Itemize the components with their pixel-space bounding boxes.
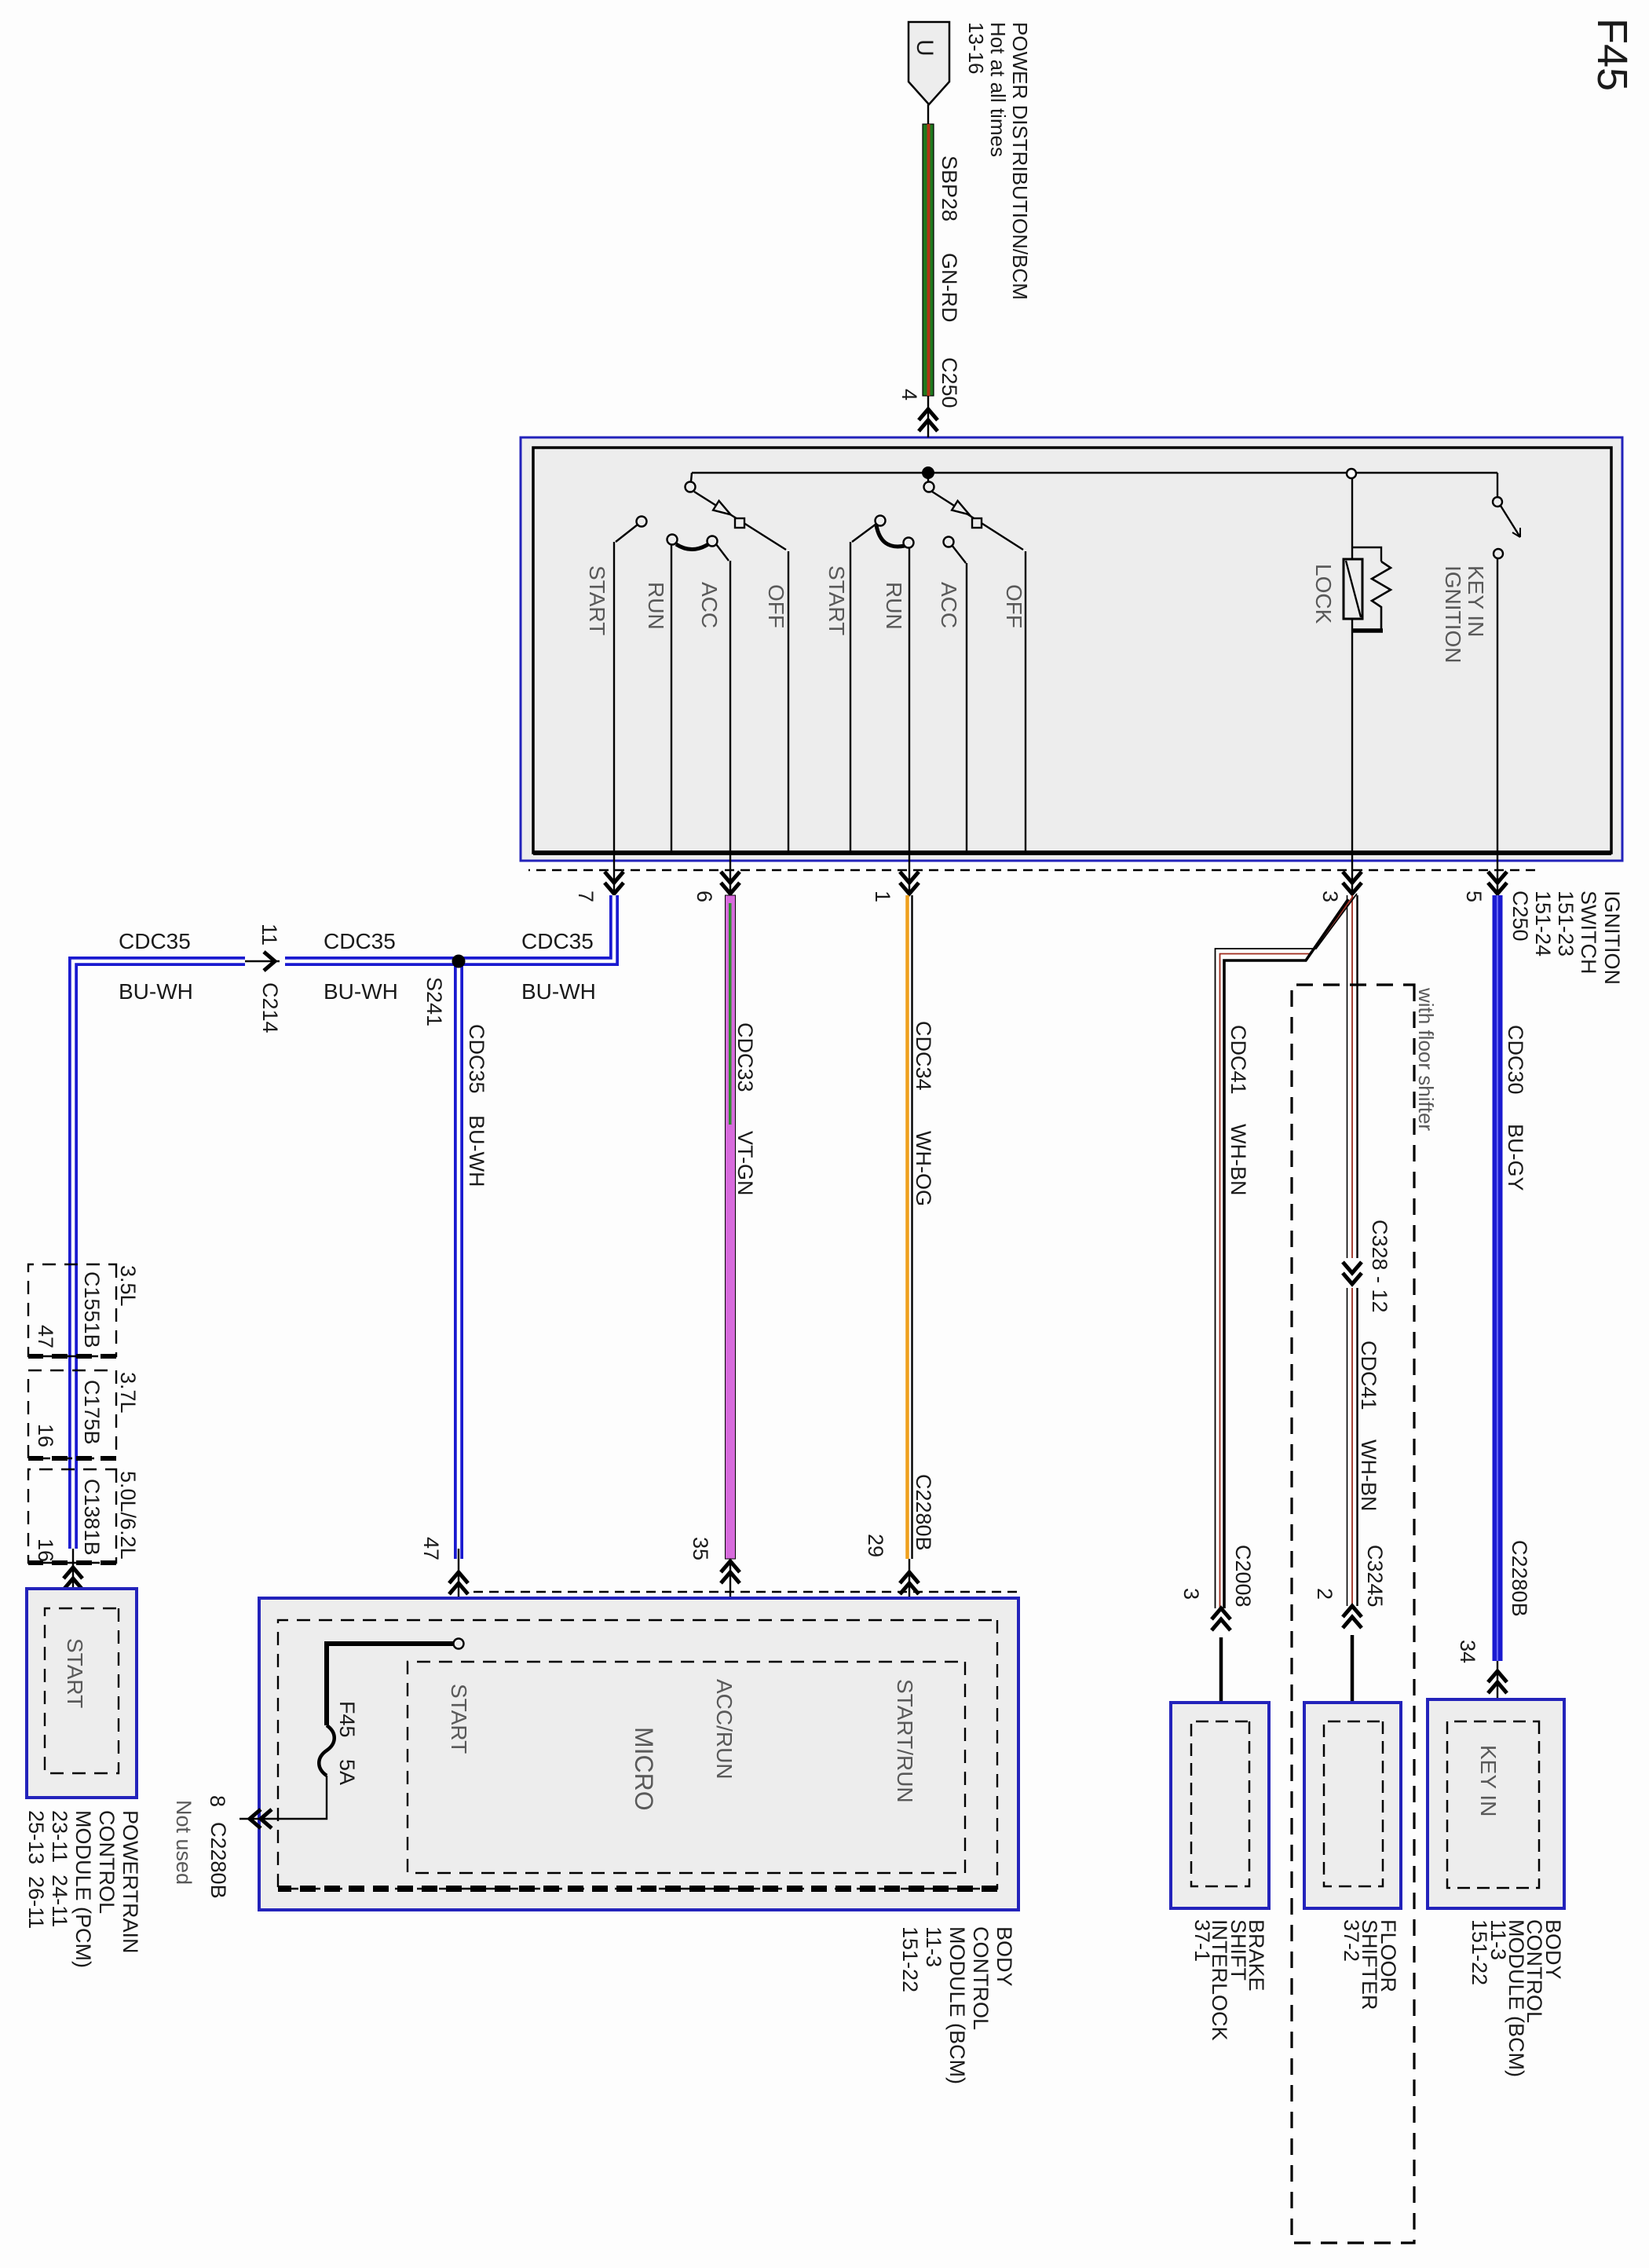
- svg-text:Hot at all times: Hot at all times: [986, 22, 1010, 157]
- svg-text:POWERTRAIN: POWERTRAIN: [119, 1810, 142, 1954]
- svg-text:C2280B: C2280B: [1508, 1540, 1531, 1617]
- svg-text:OFF: OFF: [764, 584, 788, 628]
- svg-text:START: START: [447, 1684, 471, 1754]
- svg-text:C2280B: C2280B: [207, 1822, 230, 1899]
- svg-text:BU-WH: BU-WH: [324, 979, 398, 1004]
- svg-text:7: 7: [574, 891, 598, 902]
- svg-text:5.0L/6.2L: 5.0L/6.2L: [116, 1471, 140, 1560]
- svg-text:CDC33: CDC33: [733, 1022, 757, 1092]
- svg-text:CDC35: CDC35: [324, 929, 396, 953]
- svg-text:BODY: BODY: [993, 1926, 1016, 1987]
- svg-text:ACC/RUN: ACC/RUN: [712, 1679, 737, 1780]
- svg-text:47: 47: [419, 1537, 443, 1560]
- svg-text:11: 11: [258, 924, 281, 946]
- svg-text:CDC35: CDC35: [465, 1024, 488, 1094]
- svg-text:35: 35: [689, 1537, 712, 1560]
- svg-text:SBP28: SBP28: [938, 155, 961, 221]
- svg-text:START/RUN: START/RUN: [893, 1679, 917, 1803]
- svg-text:START: START: [824, 565, 849, 635]
- svg-text:CDC41: CDC41: [1357, 1341, 1380, 1410]
- svg-text:37-1: 37-1: [1190, 1919, 1214, 1962]
- svg-text:CONTROL: CONTROL: [95, 1810, 119, 1914]
- svg-text:ACC: ACC: [937, 582, 961, 628]
- svg-text:11-3: 11-3: [922, 1926, 945, 1967]
- svg-text:with floor shifter: with floor shifter: [1414, 987, 1438, 1131]
- svg-text:F45: F45: [1589, 18, 1636, 91]
- svg-text:6: 6: [693, 891, 716, 902]
- svg-text:VT-GN: VT-GN: [733, 1131, 757, 1196]
- svg-text:151-22: 151-22: [1468, 1919, 1491, 1985]
- svg-text:START: START: [63, 1638, 87, 1708]
- svg-text:1: 1: [871, 891, 894, 902]
- svg-text:IGNITION: IGNITION: [1441, 565, 1465, 663]
- svg-text:5: 5: [1462, 891, 1486, 902]
- svg-text:BU-WH: BU-WH: [521, 979, 596, 1004]
- svg-text:3: 3: [1179, 1588, 1203, 1600]
- svg-text:CONTROL: CONTROL: [969, 1926, 993, 2030]
- svg-text:IGNITION: IGNITION: [1600, 891, 1624, 985]
- svg-text:KEY IN: KEY IN: [1464, 565, 1488, 637]
- svg-text:151-22: 151-22: [898, 1926, 922, 1992]
- svg-text:CDC34: CDC34: [912, 1021, 935, 1091]
- svg-text:ACC: ACC: [697, 582, 722, 628]
- svg-text:8: 8: [206, 1795, 229, 1807]
- svg-text:WH-BN: WH-BN: [1357, 1439, 1380, 1511]
- svg-text:4: 4: [898, 389, 921, 401]
- svg-text:RUN: RUN: [882, 582, 906, 630]
- svg-text:WH-OG: WH-OG: [912, 1131, 935, 1206]
- svg-text:151-23: 151-23: [1554, 891, 1578, 957]
- svg-text:16: 16: [34, 1538, 57, 1562]
- svg-text:MICRO: MICRO: [630, 1727, 658, 1811]
- svg-text:WH-BN: WH-BN: [1227, 1124, 1250, 1195]
- svg-text:C214: C214: [258, 982, 282, 1033]
- svg-text:RUN: RUN: [644, 582, 668, 630]
- svg-text:13-16: 13-16: [964, 22, 988, 75]
- svg-text:CDC35: CDC35: [119, 929, 191, 953]
- svg-text:16: 16: [34, 1424, 57, 1447]
- svg-text:C1551B: C1551B: [80, 1271, 104, 1348]
- svg-text:3: 3: [1318, 891, 1342, 902]
- svg-text:25-13 26-11: 25-13 26-11: [24, 1810, 48, 1929]
- svg-text:POWER DISTRIBUTION/BCM: POWER DISTRIBUTION/BCM: [1008, 22, 1032, 300]
- svg-text:C175B: C175B: [80, 1380, 104, 1445]
- svg-text:Not used: Not used: [172, 1800, 196, 1885]
- svg-text:MODULE (PCM): MODULE (PCM): [71, 1810, 95, 1968]
- svg-text:34: 34: [1456, 1640, 1479, 1663]
- svg-text:CDC30: CDC30: [1504, 1025, 1527, 1095]
- svg-text:C2008: C2008: [1231, 1545, 1255, 1608]
- svg-text:U: U: [912, 39, 938, 57]
- svg-text:29: 29: [864, 1534, 887, 1557]
- svg-text:GN-RD: GN-RD: [938, 253, 961, 323]
- svg-text:BU-WH: BU-WH: [465, 1115, 488, 1187]
- svg-text:LOCK: LOCK: [1311, 564, 1336, 624]
- svg-text:151-24: 151-24: [1531, 891, 1555, 957]
- svg-text:CDC35: CDC35: [521, 929, 594, 953]
- svg-text:KEY IN: KEY IN: [1476, 1745, 1501, 1816]
- svg-text:2: 2: [1313, 1588, 1336, 1600]
- svg-text:START: START: [585, 565, 609, 635]
- svg-text:3.7L: 3.7L: [116, 1372, 140, 1414]
- svg-text:C3245: C3245: [1363, 1545, 1387, 1608]
- svg-text:23-11 24-11: 23-11 24-11: [48, 1810, 71, 1927]
- svg-text:SWITCH: SWITCH: [1577, 891, 1600, 974]
- svg-text:5A: 5A: [335, 1759, 359, 1785]
- svg-text:C328 - 12: C328 - 12: [1368, 1220, 1391, 1313]
- svg-text:37-2: 37-2: [1340, 1919, 1363, 1962]
- svg-text:47: 47: [34, 1325, 57, 1348]
- svg-text:MODULE (BCM): MODULE (BCM): [945, 1926, 969, 2084]
- svg-text:C1381B: C1381B: [80, 1479, 104, 1556]
- svg-text:BU-WH: BU-WH: [119, 979, 193, 1004]
- svg-text:F45: F45: [335, 1701, 359, 1738]
- svg-text:C250: C250: [938, 357, 961, 408]
- svg-text:3.5L: 3.5L: [116, 1265, 140, 1307]
- svg-text:C2280B: C2280B: [912, 1474, 935, 1551]
- svg-text:BU-GY: BU-GY: [1504, 1124, 1527, 1191]
- svg-text:C250: C250: [1508, 891, 1532, 942]
- svg-text:S241: S241: [422, 977, 446, 1026]
- svg-text:CDC41: CDC41: [1227, 1025, 1250, 1095]
- svg-text:OFF: OFF: [1002, 584, 1026, 628]
